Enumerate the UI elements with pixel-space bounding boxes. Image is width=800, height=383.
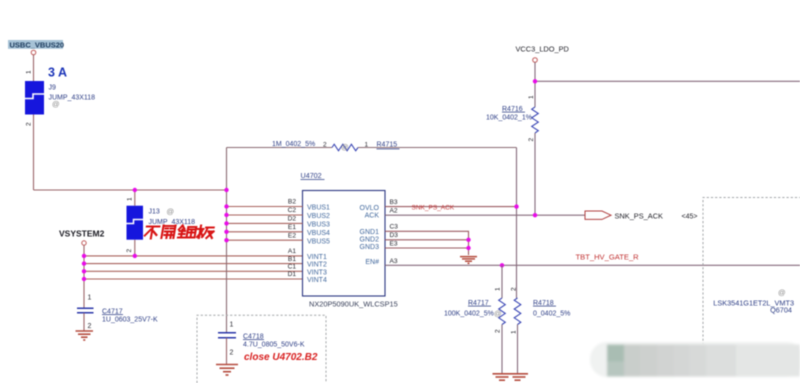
svg-text:D3: D3 [390,232,399,239]
offpage connector SNK_PS_ACK [585,211,611,219]
svg-text:OVLO: OVLO [360,205,380,212]
jumper J9 body [25,81,44,115]
power pin circle VCC3_LDO_PD [533,58,538,63]
svg-text:@: @ [341,143,349,152]
junction D3 [466,238,470,242]
resistor R4715 [332,144,358,151]
svg-text:U4702: U4702 [301,171,322,180]
svg-text:<45>: <45> [682,213,698,220]
svg-text:2: 2 [511,287,518,291]
svg-text:@: @ [778,288,786,297]
svg-text:VBUS2: VBUS2 [307,213,330,220]
wire J9 bottom [33,115,35,191]
svg-text:VBUS4: VBUS4 [307,230,330,237]
svg-text:A3: A3 [390,258,398,265]
wire stub E1 [227,231,303,233]
svg-text:VSYSTEM2: VSYSTEM2 [59,229,105,239]
svg-text:2: 2 [88,323,92,330]
wire stub E2 [227,239,303,241]
wire R4716 bottom [534,133,536,215]
svg-text:close U4702.B2: close U4702.B2 [244,352,318,363]
wire stub D2 [227,222,303,224]
wire J13 bottom [134,240,136,256]
power pin circle VSYSTEM2 [82,241,86,245]
svg-text:1: 1 [230,322,234,329]
label R4718 [533,300,556,307]
svg-text:GND1: GND1 [360,229,380,236]
svg-text:2: 2 [323,141,327,148]
svg-text:2: 2 [126,249,133,253]
resistor R4718 [514,298,521,374]
svg-text:1: 1 [495,287,502,291]
svg-text:TBT_HV_GATE_R: TBT_HV_GATE_R [576,253,640,262]
svg-text:ACK: ACK [365,213,380,220]
wire VCC3 vertical top [534,62,536,107]
svg-text:B3: B3 [390,199,398,206]
wire row C1 [84,270,303,272]
watermark blob [590,342,800,377]
wire row D1 [84,278,303,280]
label C4717 [102,308,123,315]
resistor R4716 [532,107,539,133]
ground C4717 [76,331,94,340]
svg-text:VINT4: VINT4 [307,277,327,284]
junction R4717 [500,263,504,267]
svg-text:E3: E3 [390,240,398,247]
svg-text:Q6704: Q6704 [770,306,792,315]
junction VSYSTEM2 C1 [82,269,86,273]
capacitor C4717 [77,308,94,330]
svg-text:C1: C1 [288,264,297,271]
junction VSYSTEM2 B1 [82,261,86,265]
svg-text:GND2: GND2 [360,237,380,244]
junction A2 R4716 [533,213,537,217]
wire row B3 [385,206,517,208]
svg-text:GND3: GND3 [360,244,380,251]
svg-text:A1: A1 [288,248,296,255]
svg-text:B1: B1 [288,256,296,263]
svg-text:SNK_PS_ACK: SNK_PS_ACK [412,204,455,211]
svg-text:1M_0402_5%: 1M_0402_5% [272,141,315,148]
junction bus B2 [224,204,228,208]
svg-text:100K_0402_5%: 100K_0402_5% [444,310,494,317]
svg-text:VBUS3: VBUS3 [307,222,330,229]
svg-text:1: 1 [127,197,134,201]
wire row y190 [34,189,227,191]
wire VCC3 row right [535,80,800,82]
wire VSYSTEM2 vertical [83,245,85,308]
label R4715 [377,141,400,149]
wire row A3 EN TBT_HV_GATE_R [385,264,800,266]
svg-text:E2: E2 [288,232,296,239]
svg-text:@: @ [494,309,502,318]
wire stub B2 [227,206,303,208]
svg-text:4.7U_0805_50V6-K: 4.7U_0805_50V6-K [243,341,305,348]
dashed box C4718 [197,315,326,383]
svg-text:VBUS5: VBUS5 [307,238,330,245]
svg-text:J9: J9 [49,85,57,92]
wire bus vertical x226 [226,148,228,333]
wire J13 top [134,190,136,206]
svg-text:VCC3_LDO_PD: VCC3_LDO_PD [516,45,569,54]
svg-text:VBUS1: VBUS1 [307,205,330,212]
svg-text:D2: D2 [288,216,297,223]
capacitor C4718 [218,333,236,364]
ground R4717 R4718 [493,374,529,380]
power pin circle USBC_VBUS20 [31,50,36,55]
svg-text:VINT1: VINT1 [307,254,327,261]
junction bus D2 [224,221,228,225]
label C4718 [243,333,264,340]
svg-text:D1: D1 [288,271,297,278]
wire 1M row [227,147,333,149]
wire row C3 [385,231,469,255]
wire J9 top [33,55,35,81]
junction bus E2 [224,238,228,242]
junction J13 bottom [133,254,137,258]
svg-text:E1: E1 [288,224,296,231]
ground GND pins [460,257,477,264]
svg-text:2: 2 [495,329,502,333]
junction B3 x516 [514,204,518,208]
svg-text:A2: A2 [390,208,398,215]
label R4716 [502,106,525,113]
svg-text:1: 1 [365,141,369,148]
svg-text:J13: J13 [149,209,160,216]
junction VSYSTEM2 D1 [82,277,86,281]
svg-text:NX20P5090UK_WLCSP15: NX20P5090UK_WLCSP15 [309,300,398,309]
svg-text:1: 1 [528,95,535,99]
ground C4718 [216,365,238,376]
svg-text:@: @ [52,100,60,109]
wire row A1 [84,255,303,257]
jumper J13 body [127,206,144,240]
wire vertical x516 [516,148,518,299]
junction bus C2 [224,213,228,217]
junction VSYSTEM2 A1 [82,254,86,258]
svg-text:VINT3: VINT3 [307,269,327,276]
junction J13 top [133,188,137,192]
svg-text:@: @ [167,207,175,216]
IC U4702 box [303,191,386,297]
svg-text:1: 1 [511,330,518,334]
dashed box Q6704 [703,198,800,346]
junction bus E1 [224,230,228,234]
svg-text:1U_0603_25V7-K: 1U_0603_25V7-K [102,316,158,323]
svg-text:R4715: R4715 [377,141,398,148]
wire row A2 ACK [385,214,585,216]
junction bus row190 [224,188,228,192]
label U4702 [301,171,325,180]
svg-text:2: 2 [26,122,33,126]
wire row B1 [84,263,303,265]
svg-text:3A: 3A [48,66,70,80]
junction VCC3 [533,79,537,83]
svg-text:C3: C3 [390,224,399,231]
stamp text red chinese [144,226,214,239]
svg-text:1: 1 [88,295,92,302]
svg-text:C2: C2 [288,207,297,214]
svg-text:1: 1 [26,70,33,74]
svg-text:0_0402_5%: 0_0402_5% [533,310,570,317]
wire stub C2 [227,214,303,216]
resistor R4717 [499,265,506,373]
wire row E3 [385,247,469,249]
label R4717 [468,300,491,307]
svg-text:SNK_PS_ACK: SNK_PS_ACK [615,211,664,220]
junction E3 [466,246,470,250]
svg-text:10K_0402_1%: 10K_0402_1% [486,115,532,122]
svg-text:B2: B2 [288,199,296,206]
svg-text:VINT2: VINT2 [307,262,327,269]
wire row D3 [385,239,469,241]
wire 1M row right [358,147,517,149]
net label USBC_VBUS20 [8,40,64,50]
svg-text:USBC_VBUS20: USBC_VBUS20 [10,41,65,50]
svg-text:2: 2 [528,138,535,142]
svg-text:2: 2 [230,350,234,357]
svg-text:EN#: EN# [365,259,379,266]
